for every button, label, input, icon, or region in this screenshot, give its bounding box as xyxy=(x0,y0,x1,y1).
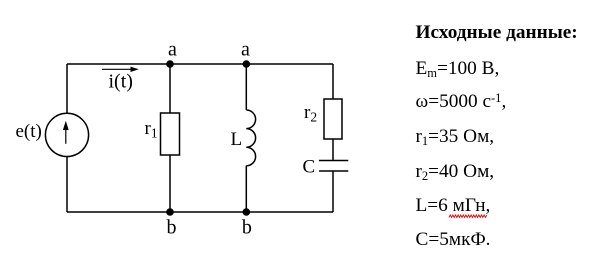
wire left upper xyxy=(66,64,68,114)
svg-text:b: b xyxy=(167,217,177,239)
svg-text:L: L xyxy=(231,129,243,150)
svg-text:a: a xyxy=(168,38,177,60)
node a1 junction dot xyxy=(166,60,174,68)
wire right upper xyxy=(332,64,334,99)
wire r1 top xyxy=(169,64,171,113)
svg-text:e(t): e(t) xyxy=(16,121,42,142)
svg-text:r2: r2 xyxy=(304,102,317,125)
svg-text:r1: r1 xyxy=(145,118,158,141)
wire left lower xyxy=(66,156,68,212)
capacitor C plate top xyxy=(319,160,348,162)
source arrow xyxy=(65,125,67,144)
svg-text:C: C xyxy=(303,157,316,178)
svg-text:a: a xyxy=(241,38,250,60)
node b1 junction dot xyxy=(166,208,174,216)
current arrow i(t) xyxy=(102,68,137,70)
capacitor C plate bottom xyxy=(319,170,348,172)
svg-text:i(t): i(t) xyxy=(109,71,133,93)
data text block xyxy=(416,23,578,43)
wire r2 to C xyxy=(332,139,334,161)
spellcheck squiggle under мГн, xyxy=(449,215,487,217)
wire bottom xyxy=(67,211,333,213)
wire top xyxy=(67,63,333,65)
source e(t) circle xyxy=(45,113,88,156)
wire L bottom xyxy=(245,166,247,212)
node b2 junction dot xyxy=(243,208,251,216)
wire L top xyxy=(245,64,247,110)
wire C bottom xyxy=(332,171,334,212)
wire r1 bottom xyxy=(169,155,171,212)
resistor r2 xyxy=(324,99,342,139)
inductor L xyxy=(246,110,255,166)
resistor r1 xyxy=(161,113,180,155)
svg-text:b: b xyxy=(242,217,252,239)
node a2 junction dot xyxy=(243,60,251,68)
